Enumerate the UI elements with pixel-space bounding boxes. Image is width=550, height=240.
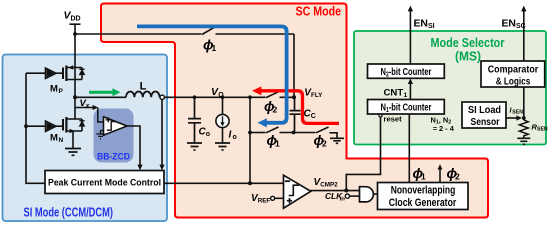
svg-text:o: o: [206, 131, 210, 138]
label: phi2 right: [314, 132, 328, 149]
blue SC current path: [137, 26, 287, 127]
block: Peak Current Mode Control: [45, 171, 164, 194]
op-amp U3 (BB-ZCD comparator): [104, 117, 128, 135]
wire comparator output: [311, 190, 360, 192]
svg-text:(MS): (MS): [455, 50, 481, 64]
label: Io: [229, 129, 237, 141]
svg-text:2: 2: [273, 104, 278, 114]
switch phi2 (on VO rail): [266, 92, 294, 98]
wire control output to comparator minus: [164, 182, 284, 184]
label: VDD: [64, 10, 81, 23]
label: CNT1: [384, 87, 408, 99]
label: phi2 near clock gen: [447, 165, 461, 182]
wire BB-ZCD output down to control (arrow): [127, 126, 140, 166]
svg-text:L: L: [140, 80, 147, 92]
node dot VCMP2 junction: [344, 189, 348, 193]
wire bottom row left segment: [250, 132, 266, 134]
ground (RSEN): [517, 138, 530, 144]
svg-text:SEN: SEN: [537, 127, 548, 133]
svg-text:N: N: [59, 137, 64, 144]
label: CLKin: [325, 191, 345, 203]
label: CC: [304, 108, 316, 120]
node dot bottom row left: [248, 131, 252, 135]
svg-text:& Logics: & Logics: [496, 76, 531, 87]
wire VO rail: [164, 96, 265, 98]
block: Nonoverlapping Clock Generator: [378, 183, 469, 210]
svg-text:2: 2: [322, 138, 327, 148]
svg-text:Comparator: Comparator: [488, 64, 539, 75]
SC Mode region (pink stepped box): [101, 4, 488, 218]
svg-text:SC: SC: [516, 23, 526, 30]
Mode Selector region (green box): [354, 31, 546, 145]
VDD supply symbol: [70, 24, 81, 34]
wire MP drain to Vx: [74, 80, 76, 98]
block: N1-bit Counter: [368, 100, 445, 115]
node dot VO feedback junction: [248, 181, 252, 185]
label: phi1 bottom row: [267, 132, 281, 149]
node VDD junction dot: [73, 32, 77, 36]
svg-text:EN: EN: [414, 19, 428, 30]
label: N1,N2: [431, 115, 455, 133]
resistor RSEN: [519, 120, 528, 138]
label: phi1 near clock gen: [413, 165, 427, 182]
wire sense down to control with arrow: [159, 100, 164, 171]
svg-text:2: 2: [455, 171, 460, 181]
svg-text:SI Load: SI Load: [468, 105, 501, 116]
svg-text:Peak Current Mode Control: Peak Current Mode Control: [48, 177, 161, 187]
current source IO: [216, 97, 229, 142]
and gate U5: [360, 187, 378, 202]
svg-text:SEN: SEN: [512, 110, 523, 116]
wire ENSC up (arrow): [521, 6, 526, 61]
block: Comparator & Logics: [481, 61, 545, 87]
label: phi1 top: [203, 37, 217, 54]
phi2 up arrow: [438, 164, 443, 182]
label: VREF: [251, 193, 270, 205]
wire left SC column down: [249, 97, 251, 183]
CLKin input terminal: [345, 194, 359, 198]
BB-ZCD block: [94, 108, 143, 171]
label: phi2 on rail: [264, 98, 278, 115]
label: VO: [211, 86, 224, 99]
svg-text:EN: EN: [502, 19, 516, 30]
label: MP: [50, 84, 64, 96]
wire feedback column to drivers: [26, 73, 45, 183]
red SC current path: [252, 86, 339, 123]
svg-text:CNT: CNT: [384, 87, 404, 98]
wire phi1 clock to N1 counter: [408, 114, 410, 183]
inductor L: [126, 92, 160, 98]
label: ISEN: [510, 105, 524, 115]
label: MN: [50, 133, 64, 145]
svg-text:1: 1: [404, 92, 408, 99]
block: N2-bit Counter: [368, 64, 445, 78]
VREF input terminal: [271, 196, 284, 200]
wire C&L down to RSEN: [523, 87, 525, 120]
svg-text:1: 1: [421, 171, 426, 181]
svg-text:= 2 - 4: = 2 - 4: [433, 124, 455, 133]
block: SI Load Sensor: [462, 102, 506, 128]
wire VDD node to phi1 switch: [75, 33, 202, 35]
svg-text:SC Mode: SC Mode: [296, 4, 342, 19]
gate driver U2 (MN): [26, 121, 56, 131]
ground (IO): [215, 143, 230, 150]
svg-text:1: 1: [275, 138, 280, 148]
svg-text:DD: DD: [71, 16, 81, 23]
svg-text:CMP2: CMP2: [320, 182, 338, 189]
node: inductor sense terminal circle: [160, 95, 164, 99]
reset input bubble: [379, 114, 382, 117]
minus input small ground: [101, 131, 104, 134]
wire MN source to ground: [72, 131, 74, 148]
label: VFLY: [304, 88, 323, 100]
svg-text:M: M: [50, 84, 58, 95]
svg-text:M: M: [50, 133, 58, 144]
svg-text:Mode Selector: Mode Selector: [431, 35, 505, 50]
gate driver U1 (MP): [26, 68, 56, 78]
label: RSEN: [532, 122, 548, 132]
switch phi2 (to ground): [316, 127, 337, 138]
svg-text:I: I: [229, 129, 232, 140]
ground (SC cell): [330, 138, 344, 143]
wire down to VFLY: [293, 34, 295, 97]
wire Vx branch to BB-ZCD input (arrow): [75, 105, 98, 110]
svg-text:P: P: [59, 88, 64, 95]
svg-text:Nonoverlapping: Nonoverlapping: [391, 185, 456, 197]
node rail junction dots: [193, 95, 197, 99]
node dot CC bottom: [292, 131, 296, 135]
node VFLY junction dot: [292, 95, 296, 99]
svg-text:SI: SI: [428, 23, 435, 30]
wire CNT1 N1 to N2 (arrow): [408, 78, 413, 99]
svg-text:Clock Generator: Clock Generator: [389, 197, 457, 209]
label: ENSC: [502, 19, 526, 31]
svg-text:in: in: [340, 197, 346, 203]
node dot ISEN: [522, 116, 526, 120]
wire bottom row right segment: [294, 132, 316, 134]
svg-text:1: 1: [212, 43, 217, 53]
svg-text:O: O: [218, 92, 224, 99]
SI Mode region (blue box): [3, 55, 168, 222]
svg-text:reset: reset: [384, 114, 403, 123]
node Vx junction dot: [73, 95, 77, 99]
svg-text:SI Mode (CCM/DCM): SI Mode (CCM/DCM): [24, 205, 114, 220]
transistor MP: [56, 65, 85, 81]
svg-text:BB-ZCD: BB-ZCD: [97, 152, 130, 163]
wire inside BB-ZCD to comparator + input: [98, 108, 104, 123]
svg-text:FLY: FLY: [311, 92, 323, 99]
svg-text:x: x: [85, 102, 90, 109]
label: Vx: [80, 98, 90, 110]
switch phi1 (top): [202, 27, 294, 34]
svg-text:N2-bit Counter: N2-bit Counter: [381, 67, 432, 79]
wire VCMP2 to reset: [346, 117, 380, 191]
wire ENSI up (arrow): [408, 6, 413, 64]
svg-text:C: C: [311, 113, 316, 120]
op-amp U4 (comparator VCMP2): [284, 175, 311, 208]
wire ISEN to node (arrow): [506, 115, 522, 120]
svg-text:Sensor: Sensor: [471, 117, 500, 128]
capacitor CO: [188, 97, 201, 142]
green inductor current arrow: [89, 88, 121, 96]
node junction dot driver MN branch: [24, 124, 28, 128]
svg-text:o: o: [233, 134, 237, 141]
svg-text:REF: REF: [258, 198, 271, 205]
capacitor CC: [290, 97, 301, 132]
svg-text:N1-bit Counter: N1-bit Counter: [381, 103, 432, 115]
label: ENSI: [414, 19, 435, 31]
switch phi1 (bottom row): [266, 127, 294, 133]
ground (MN): [65, 149, 81, 156]
label: Co: [199, 127, 211, 139]
transistor MN: [56, 97, 85, 133]
label: VCMP2: [314, 177, 339, 189]
wire VDD column to MP source: [74, 34, 76, 68]
wire Vx to inductor: [75, 96, 126, 98]
ground (CO): [187, 143, 202, 150]
